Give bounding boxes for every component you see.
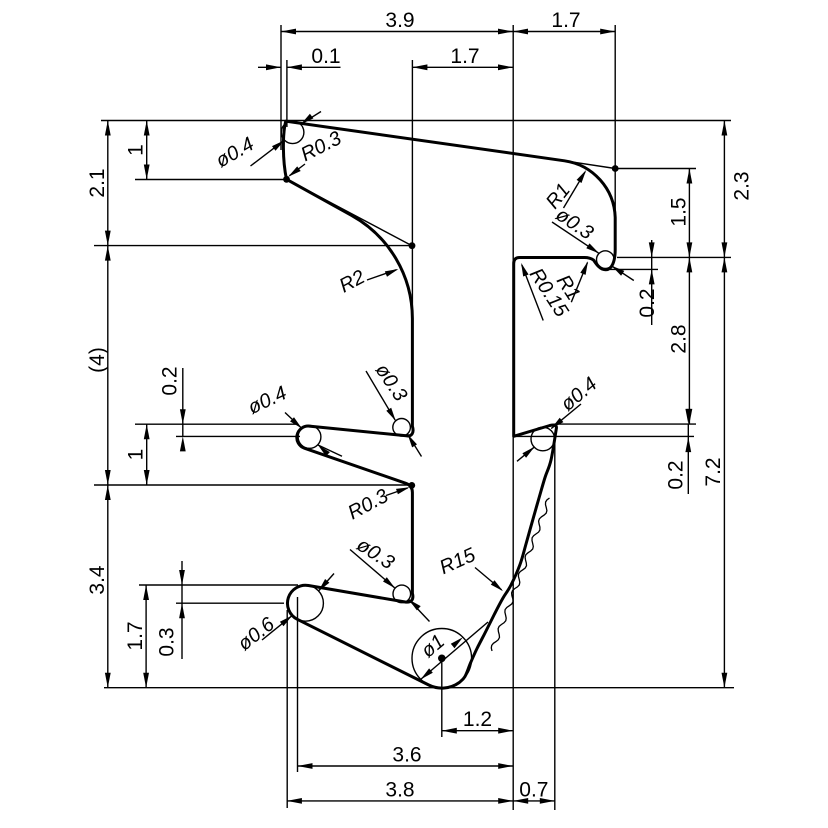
dim 0.3 left	[156, 561, 185, 659]
leader dia 1	[417, 622, 488, 679]
gauge circle dia 0.3 nib2	[393, 585, 411, 603]
gauge circle dia 0.3 top right	[597, 251, 615, 269]
extension line y top	[101, 120, 731, 122]
svg-text:1.2: 1.2	[463, 708, 492, 731]
extension line y=257.4 right	[617, 256, 731, 258]
node dot R0.3 corner	[408, 482, 415, 489]
zigzag serration line	[491, 498, 549, 651]
dim 0.7	[513, 778, 555, 803]
svg-text:1: 1	[125, 144, 148, 156]
dim 3.4	[86, 485, 111, 688]
svg-text:(4): (4)	[86, 347, 109, 373]
dim 7.2	[702, 257, 727, 687]
svg-text:1.7: 1.7	[124, 621, 147, 650]
svg-text:0.7: 0.7	[519, 778, 548, 801]
svg-text:2.1: 2.1	[86, 168, 109, 197]
svg-text:7.2: 7.2	[702, 457, 725, 486]
leader dia 0.4 peak	[212, 112, 321, 173]
dim 1.7 top	[513, 9, 615, 34]
extension line x=513.2	[512, 25, 514, 810]
leader R0.3 peak	[288, 127, 345, 177]
svg-text:3.6: 3.6	[392, 744, 421, 767]
leader R0.3 mid	[344, 485, 409, 524]
dim (4)	[86, 246, 111, 485]
svg-text:ø0.6: ø0.6	[234, 613, 280, 656]
extension line x=297.5	[297, 597, 299, 772]
svg-text:ø0.4: ø0.4	[557, 373, 602, 416]
leader R1 lower	[552, 261, 588, 304]
extension line y=436.4 right	[514, 435, 694, 437]
svg-text:0.2: 0.2	[665, 460, 688, 489]
leader R1 top	[542, 170, 586, 213]
extension line y=424.1 right	[555, 423, 697, 425]
svg-text:0.1: 0.1	[311, 45, 340, 68]
extension line x=412.4	[411, 60, 413, 317]
dim 3.6	[298, 744, 514, 769]
svg-text:3.8: 3.8	[385, 778, 414, 801]
svg-text:0.2: 0.2	[159, 366, 182, 395]
leader dia 0.3 nib2	[350, 534, 430, 622]
dim 2.8	[668, 257, 693, 424]
svg-text:0.2: 0.2	[636, 288, 659, 317]
leader R0.15	[521, 263, 573, 322]
svg-text:ø0.3: ø0.3	[371, 360, 412, 405]
extension line x=287.2	[286, 610, 288, 808]
leader dia 0.6	[234, 574, 334, 656]
leader dia 0.3 top right	[552, 204, 634, 281]
dim 1 mid	[125, 424, 150, 485]
node dot R2 corner	[409, 242, 416, 249]
gauge circle dia 0.4 right nib	[531, 427, 555, 451]
extension line y=603.2	[176, 602, 284, 604]
gauge circle dia 0.4 at peak	[281, 121, 304, 144]
svg-text:ø0.3: ø0.3	[352, 534, 398, 574]
svg-text:ø0.4: ø0.4	[245, 382, 291, 419]
svg-text:1.7: 1.7	[450, 45, 479, 68]
leader dia 0.4 right	[517, 373, 602, 461]
node dot R1 corner	[612, 165, 619, 172]
leader dia 0.4 mid	[245, 382, 342, 456]
svg-text:2.3: 2.3	[731, 171, 754, 200]
gauge circle dia 0.4 mid lobe	[298, 426, 321, 449]
svg-text:R2: R2	[336, 266, 369, 297]
leader R15	[436, 544, 503, 591]
extension line y=179.5	[135, 179, 287, 181]
dim 1.5	[668, 169, 693, 258]
extension line x=615.2	[614, 25, 616, 217]
dim 1.7 left	[124, 585, 149, 688]
dim 3.9	[281, 9, 513, 34]
svg-text:1.7: 1.7	[551, 9, 580, 32]
extension line x=441.8 center	[441, 658, 443, 737]
svg-text:2.8: 2.8	[668, 324, 691, 353]
extension line x=286.9 top	[286, 60, 288, 127]
svg-text:3.9: 3.9	[385, 9, 414, 32]
extension line y=168.5 right	[616, 168, 696, 170]
extension line y=245.6	[94, 245, 413, 247]
extension line baseline	[104, 687, 734, 689]
dim 2.3	[722, 121, 754, 258]
svg-text:0.3: 0.3	[156, 627, 179, 656]
node dot peak base	[283, 176, 290, 183]
dim 1 top	[125, 121, 150, 180]
dim 1.7 second	[412, 45, 513, 70]
svg-text:1: 1	[125, 449, 148, 461]
svg-text:1.5: 1.5	[668, 197, 691, 226]
node dot circle center	[438, 655, 446, 663]
svg-text:3.4: 3.4	[86, 565, 109, 595]
profile outline	[283, 121, 615, 688]
gauge circle dia 1 bottom	[412, 629, 472, 689]
svg-text:R0.3: R0.3	[297, 127, 345, 166]
construction line to corner node R1	[565, 161, 616, 169]
extension line x=554.8	[554, 440, 556, 810]
extension line x=281	[280, 25, 282, 150]
construction line to corner node R2	[287, 179, 413, 245]
dim 3.8	[287, 778, 513, 803]
svg-text:R0.3: R0.3	[344, 485, 392, 524]
extension line y=269.4 right	[601, 268, 658, 270]
svg-text:R15: R15	[436, 544, 479, 579]
extension line y=436.4 left	[176, 435, 300, 437]
dim 0.2 upper right	[636, 240, 659, 325]
dim 0.2 left	[159, 366, 186, 451]
extension line y=485	[94, 484, 413, 486]
extension line y=424.2 left	[135, 423, 298, 425]
dim 1.2	[442, 708, 513, 733]
leader dia 0.3 nib1	[366, 360, 422, 457]
gauge circle dia 0.6 lower lobe	[287, 585, 323, 621]
extension line y=585	[139, 584, 298, 586]
dim 0.2 lower right	[665, 409, 692, 494]
gauge circle dia 0.3 nib1	[393, 419, 411, 437]
leader R2	[336, 266, 399, 297]
dim 2.1	[86, 121, 111, 246]
dim 0.1	[258, 45, 341, 70]
